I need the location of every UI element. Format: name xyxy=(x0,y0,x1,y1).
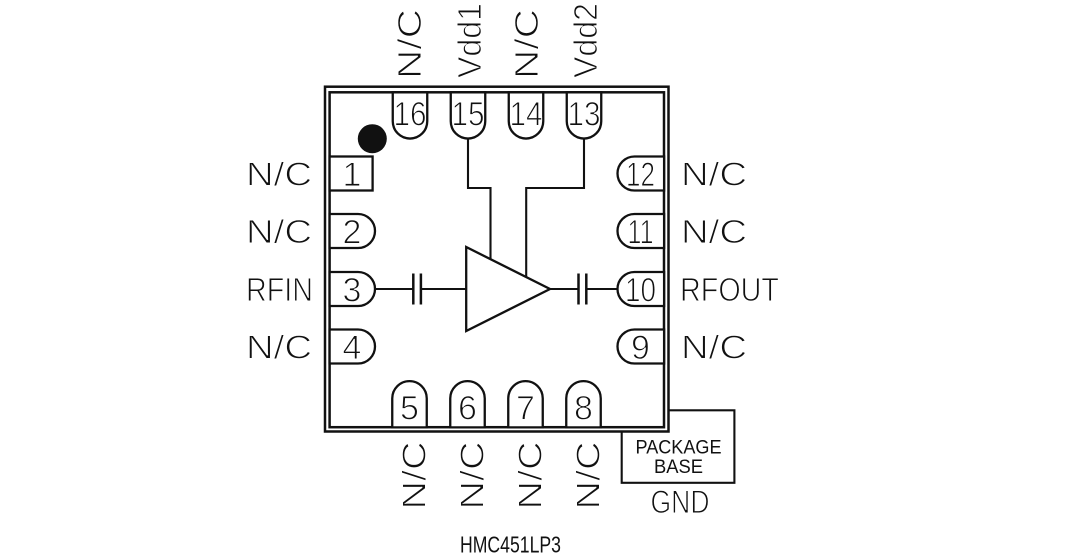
pin 4 xyxy=(330,330,375,364)
svg-text:N/C: N/C xyxy=(570,442,607,510)
svg-text:N/C: N/C xyxy=(246,329,312,366)
svg-text:8: 8 xyxy=(574,390,593,428)
pin 16 xyxy=(393,92,428,138)
svg-text:16: 16 xyxy=(394,96,427,134)
svg-text:N/C: N/C xyxy=(454,442,491,510)
pin 6 xyxy=(450,381,485,427)
pin 9 xyxy=(618,330,665,364)
svg-text:5: 5 xyxy=(400,390,419,428)
pin 8 xyxy=(566,381,601,427)
op-amp triangle xyxy=(466,247,550,331)
pin 12 xyxy=(618,157,665,191)
svg-text:N/C: N/C xyxy=(508,9,545,79)
pin 14 xyxy=(509,92,544,138)
wire amp to C2 xyxy=(550,288,579,290)
svg-text:HMC451LP3: HMC451LP3 xyxy=(460,532,561,556)
svg-text:N/C: N/C xyxy=(681,156,747,193)
pin 15 xyxy=(451,92,486,138)
svg-text:Vdd2: Vdd2 xyxy=(567,3,604,78)
svg-text:RFIN: RFIN xyxy=(246,271,313,308)
pin1 marker dot xyxy=(358,124,387,153)
pin 13 xyxy=(567,92,602,138)
svg-text:7: 7 xyxy=(516,390,535,428)
wire C2 to pin 10 xyxy=(586,288,617,290)
svg-text:12: 12 xyxy=(626,156,655,194)
svg-text:N/C: N/C xyxy=(512,442,549,510)
package outline outer xyxy=(325,87,669,432)
pin 11 xyxy=(618,214,665,248)
svg-text:6: 6 xyxy=(458,390,477,428)
svg-text:3: 3 xyxy=(343,271,362,309)
wire pin3 to C1 xyxy=(375,288,413,290)
pin 2 xyxy=(330,214,375,248)
capacitor C1 xyxy=(413,274,421,305)
svg-text:N/C: N/C xyxy=(246,213,312,250)
svg-text:4: 4 xyxy=(343,329,362,367)
pin 1 xyxy=(330,157,373,191)
svg-text:10: 10 xyxy=(625,271,656,309)
wire C1 to amp xyxy=(421,288,466,290)
svg-text:N/C: N/C xyxy=(396,442,433,510)
svg-text:BASE: BASE xyxy=(654,456,703,478)
svg-text:N/C: N/C xyxy=(246,156,312,193)
pin 5 xyxy=(392,381,427,427)
svg-text:N/C: N/C xyxy=(681,329,747,366)
svg-text:14: 14 xyxy=(510,96,543,134)
svg-text:9: 9 xyxy=(631,329,650,367)
svg-text:15: 15 xyxy=(452,96,485,134)
svg-text:13: 13 xyxy=(568,96,601,134)
svg-text:2: 2 xyxy=(343,213,362,251)
wire Vdd2 from pin 13 xyxy=(526,139,584,278)
svg-text:N/C: N/C xyxy=(391,9,428,79)
svg-text:11: 11 xyxy=(628,213,654,251)
package base box xyxy=(622,410,735,483)
capacitor C2 xyxy=(579,274,587,305)
package outline inner xyxy=(330,92,664,427)
svg-text:1: 1 xyxy=(343,156,362,194)
svg-text:GND: GND xyxy=(651,484,710,520)
pin 10 xyxy=(618,272,665,306)
svg-text:Vdd1: Vdd1 xyxy=(451,3,488,78)
pin 7 xyxy=(508,381,543,427)
pin 3 xyxy=(330,272,375,306)
svg-text:N/C: N/C xyxy=(681,213,747,250)
svg-text:RFOUT: RFOUT xyxy=(680,271,779,308)
wire Vdd1 from pin 15 xyxy=(468,139,491,260)
